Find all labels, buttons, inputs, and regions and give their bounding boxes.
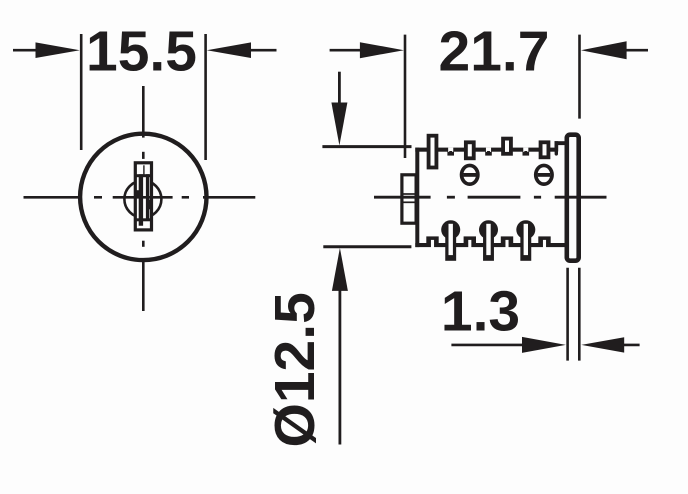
dim 15.5 left arrow tail (13, 49, 38, 52)
keyway right inner vertical (146, 174, 149, 219)
keyway bottom inner line (137, 218, 151, 221)
vertical centerline bottom dash (142, 258, 145, 311)
dim 1.3 left extension line (566, 268, 569, 361)
bottom plateau 1 (426, 236, 438, 243)
top notch window 3 (523, 148, 528, 152)
tumbler 3 circle (516, 220, 535, 239)
side centerline short dash 2 (534, 196, 541, 199)
dim 1.3 right arrow tail (624, 344, 640, 347)
dim 15.5 left arrowhead (36, 42, 80, 58)
keyway left ward block (135, 190, 143, 197)
dim 1.3 left arrow tail (451, 344, 524, 347)
svg-text:1.3: 1.3 (441, 280, 520, 344)
bottom plateau 2 (464, 236, 476, 243)
tumbler 2 stem (483, 230, 494, 261)
top notch bump 1 (449, 151, 452, 154)
dim 12.5 bottom extension line (323, 245, 411, 248)
top notch window 2 (486, 148, 491, 152)
side centerline dash 3 (555, 196, 607, 199)
body top step riser (555, 141, 559, 151)
horizontal centerline short dash right (182, 196, 189, 199)
svg-text:21.7: 21.7 (439, 20, 550, 84)
dim 15.5 right arrow tail (250, 49, 277, 52)
top notch window 1 (448, 148, 453, 152)
pin 3 body (501, 137, 513, 156)
screw ellipse 1 (462, 165, 478, 184)
dim 21.7 left arrow tail (330, 49, 362, 52)
tumbler 2 circle (479, 220, 498, 239)
tumbler 1 slot (449, 224, 453, 255)
flange nose (402, 175, 416, 223)
bottom plateau slot 4 (543, 240, 546, 248)
bottom plateau slot 3 (505, 240, 508, 248)
top notch floor 3 (523, 151, 530, 155)
pin 1 body (427, 134, 439, 170)
dim 12.5 top extension line (322, 145, 411, 148)
dim 12.5 top arrow tail (338, 72, 341, 104)
side centerline short dash 1 (447, 196, 455, 199)
bottom plateau slot 1 (431, 240, 434, 248)
tumbler 1 circle (441, 220, 460, 239)
horizontal centerline short dash left (94, 196, 102, 199)
top notch bump 2 (487, 151, 490, 154)
cylinder core circle (124, 181, 161, 218)
dim 15.5 left extension line (80, 34, 83, 150)
dim 21.7 left arrowhead (360, 42, 404, 58)
pin 2 body (464, 140, 476, 160)
vertical centerline top dash (142, 86, 145, 138)
keyway top connector (143, 165, 145, 174)
horizontal centerline middle dash (113, 196, 173, 199)
screw ellipse 1 bar (463, 173, 476, 177)
keyway left inner vertical (139, 174, 143, 226)
dim 12.5 bottom arrow tail (338, 289, 341, 445)
svg-text:Ø12.5: Ø12.5 (263, 292, 327, 447)
horizontal centerline right dash (203, 196, 255, 199)
flange rib line lower (403, 201, 416, 203)
vertical centerline short dash top (142, 152, 145, 159)
tumbler 3 stem (520, 230, 531, 261)
screw ellipse 2 bar (538, 173, 551, 177)
back plate (567, 135, 579, 261)
screw ellipse 2 (536, 165, 552, 184)
dim 15.5 right arrowhead (207, 42, 251, 58)
dim 21.7 right arrow tail (624, 49, 648, 52)
pin 2 slot (468, 144, 472, 156)
top notch floor 2 (485, 151, 492, 155)
pin 4 body (539, 140, 551, 159)
body bottom band (415, 243, 567, 247)
dim 1.3 right arrowhead (581, 337, 624, 352)
keyway top inner line (137, 174, 151, 177)
bottom plateau 4 (538, 236, 550, 243)
side centerline dash 1 (374, 196, 431, 199)
top notch bump 3 (524, 151, 527, 154)
dim 1.3 right extension line (578, 268, 581, 361)
dim 12.5 bottom arrowhead (332, 248, 348, 291)
dim 21.7 left extension line (404, 35, 407, 158)
tumbler 1 stem (445, 230, 456, 261)
top notch floor 1 (447, 151, 454, 155)
dim 21.7 right extension line (578, 35, 581, 119)
flange rib line upper (403, 193, 416, 195)
horizontal centerline left dash (24, 196, 81, 199)
vertical centerline short dash bottom (142, 241, 145, 247)
tumbler 3 slot (524, 224, 528, 255)
body top band (415, 148, 556, 152)
keyway outer rect (135, 163, 151, 230)
bottom plateau slot 2 (468, 240, 471, 248)
bottom plateau 3 (501, 236, 513, 243)
dim 12.5 top arrowhead (331, 103, 347, 146)
dim 1.3 left arrowhead (522, 337, 566, 353)
dim 15.5 right extension line (204, 34, 207, 160)
hanging stub before plate (555, 145, 558, 156)
body top raised band near plate (555, 141, 566, 145)
svg-text:15.5: 15.5 (86, 20, 197, 84)
pin 3 slot (505, 141, 509, 152)
tumbler 2 slot (486, 224, 490, 255)
keyway right ward block (147, 200, 152, 210)
pin 4 slot (543, 144, 547, 155)
side centerline dash 2 (468, 196, 521, 199)
lock face outer circle (80, 134, 206, 260)
pin 1 slot (431, 138, 435, 166)
body left edge (415, 148, 419, 248)
dim 21.7 right arrowhead (581, 41, 627, 59)
